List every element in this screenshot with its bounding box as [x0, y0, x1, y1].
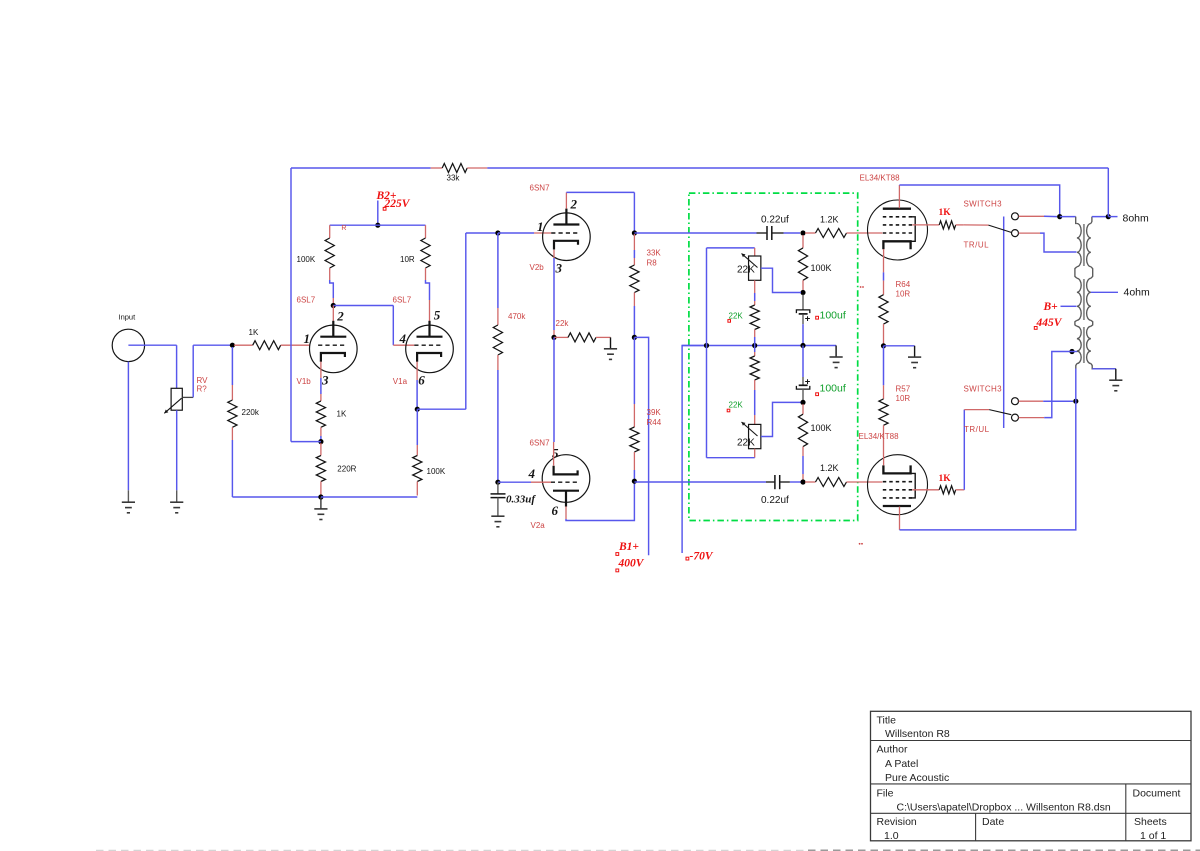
wire secondary bottom to ground — [1092, 368, 1116, 370]
svg-text:6SL7: 6SL7 — [297, 296, 316, 305]
wire ganged switch link — [1003, 217, 1005, 429]
wire -70V riser — [682, 346, 706, 554]
svg-text:220k: 220k — [242, 408, 260, 417]
resistor 220R — [320, 443, 322, 456]
wire 8ohm stub — [1108, 216, 1117, 218]
resistor 220k (grid leak) — [231, 347, 233, 385]
resistor 22K (upper string) — [754, 280, 756, 293]
wire input bottom to ground — [127, 362, 129, 491]
ground (RV) — [170, 501, 183, 503]
svg-text:1K: 1K — [939, 208, 952, 218]
svg-text:1: 1 — [304, 331, 311, 346]
capacitor 0.22uf (lower coupling) — [766, 481, 774, 483]
svg-text:Revision: Revision — [877, 816, 917, 828]
wire V2a plate out — [565, 506, 567, 519]
svg-text:1.0: 1.0 — [884, 830, 899, 842]
svg-text:R57: R57 — [896, 385, 911, 394]
svg-text:22K: 22K — [729, 401, 744, 410]
svg-text:V1a: V1a — [393, 377, 408, 386]
wire global feedback rail (top) — [291, 167, 431, 169]
capacitor 0.33uf — [497, 482, 499, 493]
svg-text:Input: Input — [119, 313, 137, 322]
svg-text:6SL7: 6SL7 — [393, 296, 412, 305]
stray marks — [860, 286, 862, 288]
tube V1a (6SL7 triode) — [406, 325, 454, 373]
svg-text:445V: 445V — [1036, 317, 1063, 329]
wire lower signal row — [634, 481, 766, 483]
wire lower plate to transformer — [900, 401, 1076, 530]
svg-text:Sheets: Sheets — [1134, 816, 1167, 828]
svg-text:22K: 22K — [737, 438, 755, 449]
wire to V2b grid — [498, 232, 534, 234]
svg-text:33K: 33K — [647, 249, 662, 258]
wire to V2a grid — [498, 481, 531, 483]
svg-text:File: File — [877, 788, 894, 800]
svg-text:10R: 10R — [896, 290, 911, 299]
svg-text:33k: 33k — [447, 174, 461, 183]
svg-text:1.2K: 1.2K — [820, 463, 839, 473]
transformer T1 primary bottom lead — [1076, 364, 1077, 369]
svg-text:SWITCH3: SWITCH3 — [964, 385, 1003, 394]
svg-text:100K: 100K — [427, 467, 446, 476]
svg-text:3: 3 — [321, 373, 329, 388]
svg-text:1K: 1K — [249, 328, 259, 337]
wire V2b cathode lead — [553, 250, 555, 258]
ground (bias rail) — [835, 346, 837, 358]
wire V1b cathode lead — [320, 362, 322, 378]
node R64 ground junction — [881, 343, 886, 348]
node bias rail right junction — [800, 343, 805, 348]
wire bottom rail — [321, 496, 417, 498]
svg-text:225V: 225V — [384, 198, 411, 210]
svg-text:4: 4 — [399, 331, 407, 346]
svg-text:R44: R44 — [647, 418, 662, 427]
resistor 33k (feedback) — [431, 167, 443, 169]
node V2b plate junction — [632, 230, 637, 235]
tube V2b (6SN7 triode) — [543, 213, 591, 261]
svg-text:8ohm: 8ohm — [1123, 213, 1150, 225]
svg-text:R?: R? — [197, 385, 208, 394]
switch SW2 blade — [964, 409, 989, 411]
svg-text:SWITCH3: SWITCH3 — [964, 200, 1003, 209]
wire upper plate to transformer — [899, 185, 1059, 217]
svg-text:6SN7: 6SN7 — [530, 439, 551, 448]
svg-text:R64: R64 — [896, 280, 911, 289]
node lower plate/primary junction — [1073, 399, 1078, 404]
svg-text:22k: 22k — [556, 319, 570, 328]
switch SW2 contact 1 — [1012, 398, 1019, 405]
resistor 1.2K (lower grid stopper) — [805, 481, 816, 483]
resistor 1K (lower screen) — [912, 489, 939, 491]
potentiometer 22K (upper) — [754, 248, 756, 256]
wire lower pot to feed — [707, 457, 755, 459]
node bottom rail junction — [318, 494, 323, 499]
wire V2b plate loop — [565, 192, 567, 208]
svg-text:100K: 100K — [811, 423, 832, 433]
node upper bias junction — [800, 290, 805, 295]
wire lower plate lead — [899, 507, 901, 530]
node bias rail mid junction — [752, 343, 757, 348]
svg-text:Author: Author — [877, 744, 908, 756]
resistor 10R (V1a plate) — [425, 225, 427, 238]
dashed boundary box (bias network) — [689, 193, 858, 520]
transformer T1 secondary section 1 — [1087, 224, 1091, 267]
transformer T1 core — [1083, 224, 1085, 266]
node lower bias junction — [800, 400, 805, 405]
svg-text:Pure Acoustic: Pure Acoustic — [885, 772, 949, 784]
wire B1+ drop — [634, 337, 648, 555]
svg-text:0.33uf: 0.33uf — [506, 494, 536, 506]
wire SW2 UL to tap — [1019, 417, 1045, 419]
svg-text:1.2K: 1.2K — [820, 215, 839, 225]
node B2+ junction — [375, 223, 380, 228]
resistor 100K (V1a cathode) — [416, 409, 418, 445]
wire 4ohm tap stub — [1091, 291, 1118, 293]
transformer T1 secondary jog 1 — [1091, 267, 1093, 279]
wire 8ohm riser — [1107, 168, 1109, 217]
svg-text:0.22uf: 0.22uf — [761, 215, 789, 226]
wire V2b cathode to V2a cathode — [553, 337, 555, 442]
wire 10R to V1a plate — [426, 280, 430, 300]
resistor 100K (upper bias) — [802, 235, 804, 248]
svg-text:TR/UL: TR/UL — [964, 241, 990, 250]
resistor 1K (grid stopper V1b) — [234, 344, 253, 346]
node V1b cathode feedback junction — [318, 439, 323, 444]
svg-text:B+: B+ — [1043, 301, 1059, 313]
transformer T1 secondary section 3 — [1087, 326, 1091, 363]
svg-text:R8: R8 — [647, 259, 658, 268]
wire 100K to V1b plate node — [330, 280, 334, 298]
capacitor 100uf (lower) — [802, 346, 804, 378]
wire SW1 UL to tap — [1019, 232, 1040, 234]
wire upper plate lead — [898, 185, 900, 208]
wire bias mid rail — [682, 345, 836, 347]
svg-text:Date: Date — [982, 816, 1004, 828]
wire V1a cathode to V2b grid (direct coupling) — [417, 408, 466, 410]
capacitor 100uf (upper) — [802, 295, 804, 310]
node plate/primary junction — [1057, 214, 1062, 219]
svg-text:100uf: 100uf — [820, 310, 846, 322]
transformer T1 primary top lead — [1060, 216, 1076, 218]
wire 220k bottom to bottom rail — [231, 440, 233, 497]
wire tap stub — [1070, 351, 1078, 353]
tube V1b (6SL7 triode) — [332, 306, 334, 321]
ground (input) — [122, 501, 135, 503]
ground (R64) — [884, 345, 915, 347]
node B1+ junction — [632, 335, 637, 340]
transformer T1 primary section 3 — [1077, 326, 1081, 363]
svg-text:100K: 100K — [297, 255, 316, 264]
ground (22k) — [610, 337, 612, 348]
wire upper signal row into box — [634, 232, 756, 234]
svg-text:1: 1 — [537, 219, 544, 234]
node lower UL tap junction — [1069, 349, 1074, 354]
svg-text:+: + — [805, 314, 811, 325]
wire V1a cathode lead — [416, 362, 418, 380]
svg-text:Document: Document — [1133, 788, 1181, 800]
wire SW2 TR to plate node — [1019, 400, 1044, 402]
svg-text:V1b: V1b — [297, 377, 312, 386]
svg-text:B1+: B1+ — [618, 541, 639, 553]
node V2b grid junction (470k top) — [495, 230, 500, 235]
transformer T1 primary section 2 — [1077, 278, 1081, 320]
svg-text:2: 2 — [336, 309, 344, 324]
resistor 1K (V1b cathode) — [316, 401, 325, 427]
svg-text:100K: 100K — [811, 263, 832, 273]
svg-text:39K: 39K — [647, 408, 662, 417]
resistor 39K R44 — [633, 337, 635, 404]
svg-text:EL34/KT88: EL34/KT88 — [859, 432, 900, 441]
svg-text:1K: 1K — [939, 474, 952, 484]
ground (0.33uf) — [491, 515, 504, 517]
potentiometer 22K (lower) — [749, 424, 761, 448]
wire upper pot wiper — [761, 268, 801, 292]
resistor 22k (V2b cathode) — [554, 336, 568, 338]
resistor 22K (lower string) — [754, 346, 756, 353]
resistor 1K (upper screen) — [912, 224, 939, 226]
wire lower cathode lead — [883, 456, 885, 465]
svg-text:A Patel: A Patel — [885, 758, 918, 770]
node upper grid junction — [800, 230, 805, 235]
svg-text:0.22uf: 0.22uf — [761, 495, 789, 506]
resistor 33K R8 — [633, 234, 635, 250]
transformer T1 secondary top lead — [1091, 217, 1092, 224]
wire primary bottom riser — [1075, 369, 1077, 402]
input jack J1 — [112, 329, 144, 361]
node 8ohm junction — [1106, 214, 1111, 219]
ground (secondary) — [1109, 379, 1122, 381]
node V2a output junction — [632, 479, 637, 484]
switch SW2 contact 2 — [1012, 414, 1019, 421]
transformer T1 secondary section 2 — [1087, 278, 1091, 320]
svg-text:V2b: V2b — [530, 263, 545, 272]
tube U3 EL34/KT88 (upper) — [868, 200, 928, 260]
wire lower pot wiper — [761, 402, 801, 436]
svg-text:10R: 10R — [400, 255, 415, 264]
transformer T1 secondary bottom lead — [1091, 364, 1116, 369]
capacitor 0.22uf (upper coupling) — [757, 232, 767, 234]
sheet border bottom (faint) — [96, 849, 808, 851]
ground (V1b cathode chain) — [320, 497, 322, 509]
svg-text:3: 3 — [555, 261, 563, 276]
node V1a cathode junction — [415, 407, 420, 412]
wire SW1 TR to plate node — [1019, 215, 1044, 217]
wire input to RV top — [128, 344, 176, 346]
svg-text:R: R — [341, 225, 346, 232]
node V2b cathode junction — [551, 335, 556, 340]
transformer T1 primary section 1 — [1077, 224, 1081, 267]
svg-text:220R: 220R — [337, 465, 356, 474]
resistor 100K (lower bias) — [802, 404, 804, 414]
switch SW1 contact 2 — [1012, 230, 1019, 237]
switch SW1 contact 1 — [1012, 213, 1019, 220]
wire pot feed vertical — [706, 248, 708, 458]
svg-text:4: 4 — [528, 466, 536, 481]
svg-text:C:\Users\apatel\Dropbox ... Wi: C:\Users\apatel\Dropbox ... Willsenton R… — [897, 802, 1111, 814]
tube V2a (6SN7 triode, inverted) — [542, 455, 590, 503]
svg-text:1K: 1K — [337, 410, 347, 419]
svg-text:10R: 10R — [896, 394, 911, 403]
transformer T1 secondary jog 2 — [1091, 320, 1093, 326]
wire B2+ rail — [330, 224, 426, 226]
svg-text:-70V: -70V — [690, 551, 714, 563]
wire upper cathode lead — [883, 249, 885, 258]
svg-text:5: 5 — [434, 308, 441, 323]
svg-text:470k: 470k — [508, 312, 526, 321]
resistor 1.2K (upper grid stopper) — [805, 232, 816, 234]
resistor 470k — [497, 233, 499, 308]
svg-text:TR/UL: TR/UL — [964, 425, 990, 434]
node A junction — [230, 343, 235, 348]
svg-text:V2a: V2a — [531, 521, 546, 530]
node lower grid junction — [800, 479, 805, 484]
svg-text:4ohm: 4ohm — [1124, 287, 1151, 299]
node bias rail left junction — [704, 343, 709, 348]
switch SW1 blade — [964, 224, 989, 226]
resistor R64 10R — [879, 295, 888, 324]
potentiometer RV R? — [171, 388, 182, 410]
svg-text:400V: 400V — [618, 558, 645, 570]
svg-text:22K: 22K — [737, 265, 755, 276]
node V1b plate junction — [331, 303, 336, 308]
transformer T1 primary jog 2 — [1075, 320, 1077, 326]
svg-text:6: 6 — [418, 373, 425, 388]
node 0.33uf junction — [495, 480, 500, 485]
svg-text:EL34/KT88: EL34/KT88 — [860, 174, 901, 183]
svg-text:1 of 1: 1 of 1 — [1140, 830, 1166, 842]
resistor R57 10R — [883, 346, 885, 386]
svg-text:100uf: 100uf — [820, 383, 846, 395]
svg-text:6: 6 — [552, 503, 559, 518]
transformer T1 primary jog 1 — [1075, 267, 1077, 279]
svg-text:2: 2 — [570, 197, 578, 212]
title block — [871, 711, 1192, 841]
wire RV wiper up-right to node A — [192, 345, 194, 397]
svg-text:Willsenton R8: Willsenton R8 — [885, 728, 950, 740]
resistor 100K (V1b plate load) — [329, 225, 331, 238]
tube U4 EL34/KT88 (lower, inverted) — [868, 455, 928, 515]
wire V1b plate to V1a grid — [333, 305, 393, 307]
wire RV bottom to ground — [176, 410, 178, 490]
svg-text:Title: Title — [877, 715, 897, 727]
wire lower screen riser — [963, 410, 965, 490]
svg-text:6SN7: 6SN7 — [530, 184, 551, 193]
